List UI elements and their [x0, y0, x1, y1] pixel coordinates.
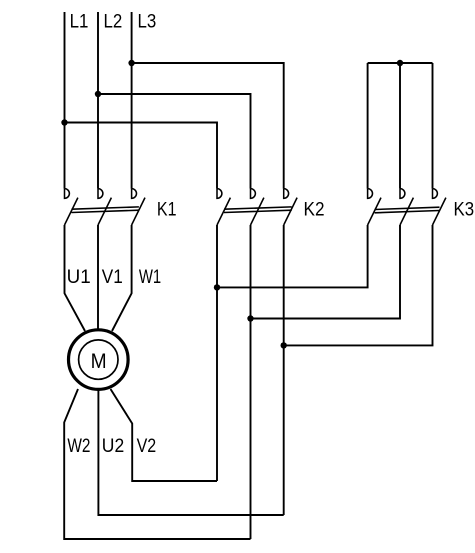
node L1 tap — [61, 119, 67, 125]
contactor K2 linkage — [224, 207, 292, 213]
contactor K1 linkage — [72, 207, 139, 213]
svg-text:K1: K1 — [157, 198, 177, 220]
motor M — [69, 330, 129, 390]
wire L2 vertical — [97, 12, 99, 189]
node K3 star point — [397, 60, 403, 66]
wire L1 tap to K2 pole 1 — [65, 123, 218, 189]
wire motor W2 to K2 pole 2 — [64, 389, 250, 539]
wire L3 tap to K2 pole 3 — [132, 63, 284, 189]
wire L3 vertical — [131, 12, 133, 189]
wire motor V2 to K2 pole 1 — [111, 389, 218, 481]
node K2 pole 2 / K3 pole 2 — [247, 315, 253, 321]
wire K3 star bar — [368, 62, 433, 64]
contactor K3 linkage — [375, 207, 440, 213]
node K2 pole 3 / K3 pole 3 — [281, 342, 287, 348]
wire motor U2 to K2 pole 3 — [98, 389, 283, 515]
contactor K3 pole 2 contact — [400, 189, 413, 225]
wire K2 pole 2 lower to W2 corner — [250, 225, 252, 539]
wire K3 pole 1 upper — [367, 63, 369, 189]
contactor K1 pole 1 contact — [65, 189, 78, 225]
wire L2 tap to K2 pole 2 — [98, 94, 251, 189]
contactor K3 pole 1 contact — [368, 189, 381, 225]
wire K3 pole 3 upper — [432, 63, 434, 189]
contactor K1 pole 2 contact — [98, 189, 111, 225]
svg-text:W2: W2 — [67, 435, 90, 457]
wire K1 pole 2 to motor V1 — [97, 225, 99, 331]
wire K2 pole 3 lower to U2 corner — [283, 225, 285, 515]
wire K3 pole 1 lower to node — [217, 225, 368, 287]
svg-text:L3: L3 — [138, 11, 157, 33]
contactor K2 pole 1 contact — [217, 189, 230, 225]
contactor K3 pole 3 contact — [433, 189, 446, 225]
svg-text:L2: L2 — [104, 11, 123, 33]
svg-text:L1: L1 — [70, 11, 89, 33]
contactor K2 pole 3 contact — [284, 189, 297, 225]
svg-text:W1: W1 — [139, 266, 161, 288]
node L2 tap — [95, 91, 101, 97]
svg-text:V2: V2 — [137, 435, 157, 457]
wire K3 pole 2 upper — [399, 63, 401, 189]
svg-text:K2: K2 — [304, 198, 325, 220]
wire K3 pole 3 lower to node — [284, 225, 433, 345]
wire K1 pole 3 to motor W1 — [112, 225, 132, 331]
svg-text:M: M — [91, 349, 107, 373]
svg-text:U2: U2 — [102, 435, 124, 457]
wire K2 pole 1 lower to V2 corner — [216, 225, 218, 481]
svg-text:V1: V1 — [102, 266, 123, 288]
node L3 tap — [128, 60, 134, 66]
wire K3 pole 2 lower to node — [251, 225, 401, 319]
contactor K1 pole 3 contact — [132, 189, 145, 225]
contactor K2 pole 2 contact — [251, 189, 264, 225]
wire K1 pole 1 to motor U1 — [65, 225, 86, 331]
svg-text:U1: U1 — [67, 266, 91, 288]
wire L1 vertical — [64, 12, 66, 189]
svg-text:K3: K3 — [454, 198, 475, 220]
node K2 pole 1 / K3 pole 1 — [214, 284, 220, 290]
